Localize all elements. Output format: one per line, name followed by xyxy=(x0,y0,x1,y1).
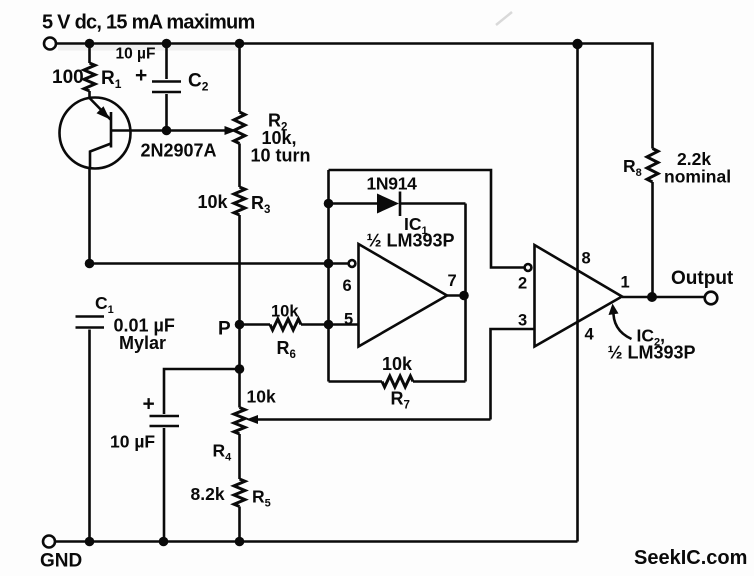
wire branch to 10uF capacitor xyxy=(164,369,240,414)
node collector/C1/pin6 junction dot xyxy=(85,259,95,269)
capacitor C1 xyxy=(76,315,105,318)
svg-text:½ LM393P: ½ LM393P xyxy=(608,343,696,363)
svg-text:Mylar: Mylar xyxy=(119,333,166,353)
resistor R1 xyxy=(84,63,95,91)
svg-text:10k: 10k xyxy=(382,354,413,374)
potentiometer R2 xyxy=(234,112,245,144)
wire IC1 top loop to IC2 pin2 xyxy=(329,170,525,268)
node output junction dot xyxy=(647,292,657,302)
svg-text:10k: 10k xyxy=(198,192,229,212)
svg-text:3: 3 xyxy=(518,312,527,330)
pin 2 input circle xyxy=(525,264,532,271)
svg-text:R7: R7 xyxy=(391,389,410,412)
R4 wiper arrow xyxy=(246,415,258,424)
wire bottom rail xyxy=(55,540,577,543)
node bottom rail junction dots xyxy=(85,537,95,547)
wire C1 node to IC1 pin6 xyxy=(90,262,349,265)
node P junction dot xyxy=(235,320,245,330)
resistor R7 xyxy=(382,376,413,387)
svg-text:6: 6 xyxy=(343,277,352,295)
wire 10uF to bottom rail xyxy=(163,428,166,542)
svg-text:Output: Output xyxy=(671,268,734,289)
wire R7 bottom run xyxy=(329,380,466,383)
potentiometer R4 xyxy=(234,408,245,435)
svg-text:10 turn: 10 turn xyxy=(251,146,311,166)
wire C1 to bottom rail xyxy=(88,330,91,542)
wire V+ pin8/pin4 power line xyxy=(576,44,579,542)
resistor R3 xyxy=(234,187,245,215)
svg-text:10k: 10k xyxy=(271,303,299,321)
wire R1 to transistor emitter xyxy=(88,91,91,99)
svg-text:nominal: nominal xyxy=(664,167,731,187)
node IC1 output dot xyxy=(459,291,469,301)
wire Q1 base line to R2 wiper with arrow xyxy=(111,129,227,132)
svg-text:R4: R4 xyxy=(213,441,233,464)
svg-text:2N2907A: 2N2907A xyxy=(141,141,217,161)
terminal GND xyxy=(43,536,55,548)
wire R5 to bottom rail xyxy=(238,507,241,542)
capacitor C2 xyxy=(152,80,181,83)
svg-text:SeekIC.com: SeekIC.com xyxy=(634,547,747,569)
svg-text:1: 1 xyxy=(621,274,630,292)
svg-text:10 µF: 10 µF xyxy=(110,432,155,452)
wire rail to R2 xyxy=(238,44,241,113)
node top rail junction dots xyxy=(85,39,95,49)
wire top rail xyxy=(56,44,652,149)
wire R4 wiper to pin3 riser xyxy=(257,418,491,421)
wire P to R6 xyxy=(240,323,271,326)
svg-text:4: 4 xyxy=(585,326,595,344)
svg-text:2: 2 xyxy=(518,275,527,293)
wire +5V to R1 xyxy=(88,44,91,64)
svg-text:+: + xyxy=(135,64,147,87)
node diode-branch junction dot xyxy=(324,259,334,269)
wire IC1 left vertical xyxy=(327,170,330,382)
wire C2 to base line xyxy=(165,94,168,131)
wire IC2 output to terminal xyxy=(622,296,705,299)
op-amp IC1 triangle xyxy=(359,244,448,347)
wire Q1 collector down to C1 node xyxy=(88,169,91,264)
svg-text:100: 100 xyxy=(52,67,84,88)
svg-text:7: 7 xyxy=(448,272,457,290)
svg-text:GND: GND xyxy=(40,551,82,572)
svg-text:R5: R5 xyxy=(252,487,271,510)
svg-text:P: P xyxy=(218,319,231,340)
node diode anode dot xyxy=(324,199,334,209)
svg-text:+: + xyxy=(143,393,155,416)
wire R4 wiper riser to IC2 pin3 xyxy=(491,329,535,420)
svg-text:R3: R3 xyxy=(251,193,270,216)
svg-text:C2: C2 xyxy=(188,71,209,94)
op-amp IC2 triangle xyxy=(535,245,623,347)
node P-R4 branch dot xyxy=(235,364,245,374)
wire rail to C2 xyxy=(165,44,168,80)
svg-text:C1: C1 xyxy=(95,293,114,316)
node pin5 feedback dot xyxy=(324,320,334,330)
svg-text:5: 5 xyxy=(344,311,353,329)
svg-text:R8: R8 xyxy=(623,156,642,179)
resistor R6 xyxy=(270,319,301,330)
wire R8 to output node xyxy=(651,182,654,297)
terminal Output xyxy=(705,292,718,305)
svg-text:R1: R1 xyxy=(101,68,122,91)
IC2 pointer curved arrow xyxy=(613,309,631,339)
resistor R5 xyxy=(234,479,245,507)
wire IC1 right vertical xyxy=(464,204,467,382)
transistor Q1 2N2907A xyxy=(60,98,131,170)
svg-text:10k: 10k xyxy=(247,387,276,407)
wire P to R4 xyxy=(238,325,241,408)
svg-text:1N914: 1N914 xyxy=(367,174,418,194)
wire R3 down to node P (crosses pin6 line) xyxy=(238,215,241,325)
capacitor C3 10uF xyxy=(150,415,180,418)
terminal +5V input xyxy=(44,38,56,50)
diode D1 1N914 xyxy=(329,192,466,217)
svg-text:5 V dc, 15 mA maximum: 5 V dc, 15 mA maximum xyxy=(42,12,255,34)
wire R2 to R3 xyxy=(238,144,241,188)
svg-text:8: 8 xyxy=(582,250,591,268)
resistor R8 xyxy=(647,149,658,183)
wire R6 to IC1 pin5 xyxy=(301,323,359,326)
svg-text:10 µF: 10 µF xyxy=(116,46,156,63)
pin 6 input circle xyxy=(349,260,356,267)
svg-text:½ LM393P: ½ LM393P xyxy=(367,231,455,251)
svg-text:R6: R6 xyxy=(277,338,296,361)
svg-text:8.2k: 8.2k xyxy=(191,484,225,504)
node base/C2 junction dot xyxy=(162,126,172,136)
wire R4 to R5 xyxy=(238,434,241,479)
wire IC1 output xyxy=(447,294,466,297)
